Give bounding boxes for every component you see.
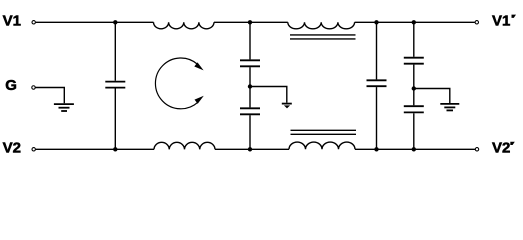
svg-text:V1: V1 — [3, 13, 21, 30]
svg-text:G: G — [5, 77, 17, 94]
svg-text:V1: V1 — [492, 13, 510, 30]
svg-text:V2: V2 — [492, 140, 510, 157]
svg-text:V2: V2 — [3, 140, 21, 157]
